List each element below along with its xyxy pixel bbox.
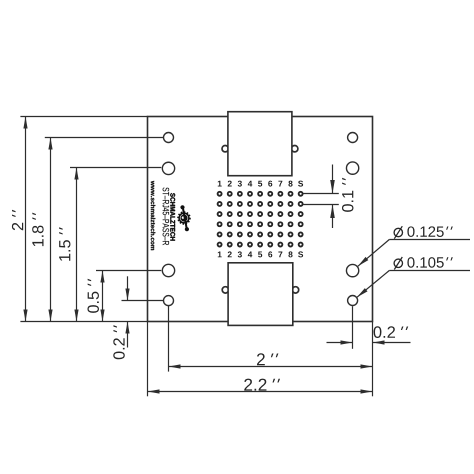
- arrowhead leader 0.105: [356, 288, 368, 299]
- arrowhead 1.8in top: [48, 138, 52, 150]
- dimension line 0.1in upper shaft: [332, 165, 334, 194]
- label 1.5in: [59, 227, 70, 261]
- pad grid row 1 pads 1-8,S: [218, 192, 303, 196]
- silkscreen logo text SCHMALZTECH: [170, 193, 175, 240]
- arrowhead 0.2in br right: [373, 340, 385, 344]
- connector J1 body top RJ45: [228, 112, 292, 176]
- pad grid row 4 pads 1-8,S: [218, 222, 303, 226]
- pad grid row 6 pads 1-8,S: [218, 243, 303, 247]
- extension line right edge bottom: [372, 322, 374, 397]
- silkscreen text www.schmalztech.com: [151, 181, 155, 250]
- S pad leader row2: [303, 204, 339, 206]
- arrowhead 1.8in bottom: [48, 310, 52, 322]
- arrowhead 0.5in bottom: [100, 310, 104, 322]
- mounting hole top-left 0.105in: [164, 133, 174, 143]
- label 2in bottom: [257, 353, 278, 365]
- pad grid row 2 pads 1-8,S: [218, 202, 303, 206]
- mounting hole bottom-left 0.105in: [164, 296, 174, 306]
- mounting hole top-right 0.105in: [348, 133, 358, 143]
- arrowhead 1.5in bottom: [74, 310, 78, 322]
- extension line left hole column: [168, 306, 170, 372]
- leader line dia 0.125 diagonal: [358, 240, 390, 267]
- extension line 1.5in hole row: [70, 167, 161, 169]
- mounting hole mid-right 0.125in: [346, 162, 358, 174]
- label 1.8in: [32, 213, 43, 247]
- label 0.2in left: [113, 325, 124, 359]
- label dia 0.105in: [394, 257, 453, 270]
- arrowhead 2in top: [23, 117, 27, 129]
- label 2.2in bottom: [244, 379, 280, 391]
- extension line 0.5in hole row: [96, 270, 161, 272]
- dimension line 2in bottom: [169, 366, 373, 368]
- pad column labels top 1-8,S: [218, 181, 303, 187]
- dimension line 1.8in: [50, 138, 52, 322]
- dimension line 0.2in left upper shaft: [127, 276, 129, 300]
- mounting hole low-left 0.125in: [162, 264, 174, 276]
- connector J2 latch bump left: [222, 287, 228, 293]
- dimension line 0.2in left lower shaft: [127, 322, 129, 348]
- arrowhead 0.1in lower: [330, 205, 335, 219]
- label 2in left: [12, 210, 23, 230]
- connector J2 latch bump right: [292, 287, 298, 293]
- arrowhead 0.5in top: [100, 271, 104, 283]
- extension line bottom edge left: [20, 321, 147, 323]
- arrowhead 0.2in br left: [341, 340, 353, 344]
- dimension line 0.2in bottom-right tail: [373, 342, 411, 344]
- extension line left edge bottom: [147, 322, 149, 397]
- connector J2 body bottom RJ45: [228, 263, 293, 326]
- board outline: [148, 117, 373, 322]
- pad column labels bottom 1-8,S: [218, 251, 303, 257]
- dimension line 0.1in lower shaft: [332, 205, 334, 229]
- label 0.1in: [342, 178, 353, 212]
- extension line 1.8in hole row: [45, 137, 164, 139]
- arrowhead 1.5in top: [74, 168, 78, 180]
- dimension line 1.5in: [76, 168, 78, 322]
- connector J1 latch bump right: [292, 146, 298, 152]
- arrowhead 2in bottom: [23, 310, 27, 322]
- silkscreen logo gear with wrench: [178, 205, 190, 231]
- label 0.5in: [87, 279, 98, 313]
- leader line dia 0.105 underline: [389, 270, 470, 272]
- arrowhead 0.1in upper: [330, 180, 335, 194]
- extension line top edge 2in row: [20, 116, 147, 118]
- mounting hole mid-left 0.125in: [162, 162, 174, 174]
- arrowhead 0.2in left upper: [125, 289, 129, 301]
- leader line dia 0.125 underline: [389, 239, 470, 241]
- dimension line 0.5in: [102, 271, 104, 322]
- label dia 0.125in: [394, 226, 453, 239]
- S pad leader row1: [303, 193, 339, 195]
- arrowhead 2.2in right: [361, 389, 373, 393]
- arrowhead 2in bottom left: [169, 364, 181, 368]
- silkscreen text ST-RJ45-PASS-R: [163, 188, 170, 246]
- dimension line 2in left: [25, 117, 27, 322]
- mounting hole bottom-right 0.105in: [348, 296, 358, 306]
- mounting hole low-right 0.125in: [346, 264, 358, 276]
- pad grid row 3 pads 1-8,S: [218, 212, 303, 216]
- extension line right hole column: [352, 306, 354, 349]
- extension line 0.2in hole row: [122, 300, 164, 302]
- arrowhead 2.2in left: [148, 389, 160, 393]
- arrowhead 0.2in left lower: [125, 322, 129, 334]
- dimension line 0.2in bottom-right left shaft: [327, 342, 353, 344]
- pad grid row 5 pads 1-8,S: [218, 232, 303, 236]
- leader line dia 0.105 diagonal: [357, 271, 389, 298]
- dimension line 2.2in bottom: [148, 391, 373, 393]
- arrowhead 2in bottom right: [361, 364, 373, 368]
- arrowhead leader 0.125: [356, 257, 368, 268]
- label 0.2in bottom-right: [374, 326, 409, 338]
- connector J1 latch bump left: [222, 146, 228, 152]
